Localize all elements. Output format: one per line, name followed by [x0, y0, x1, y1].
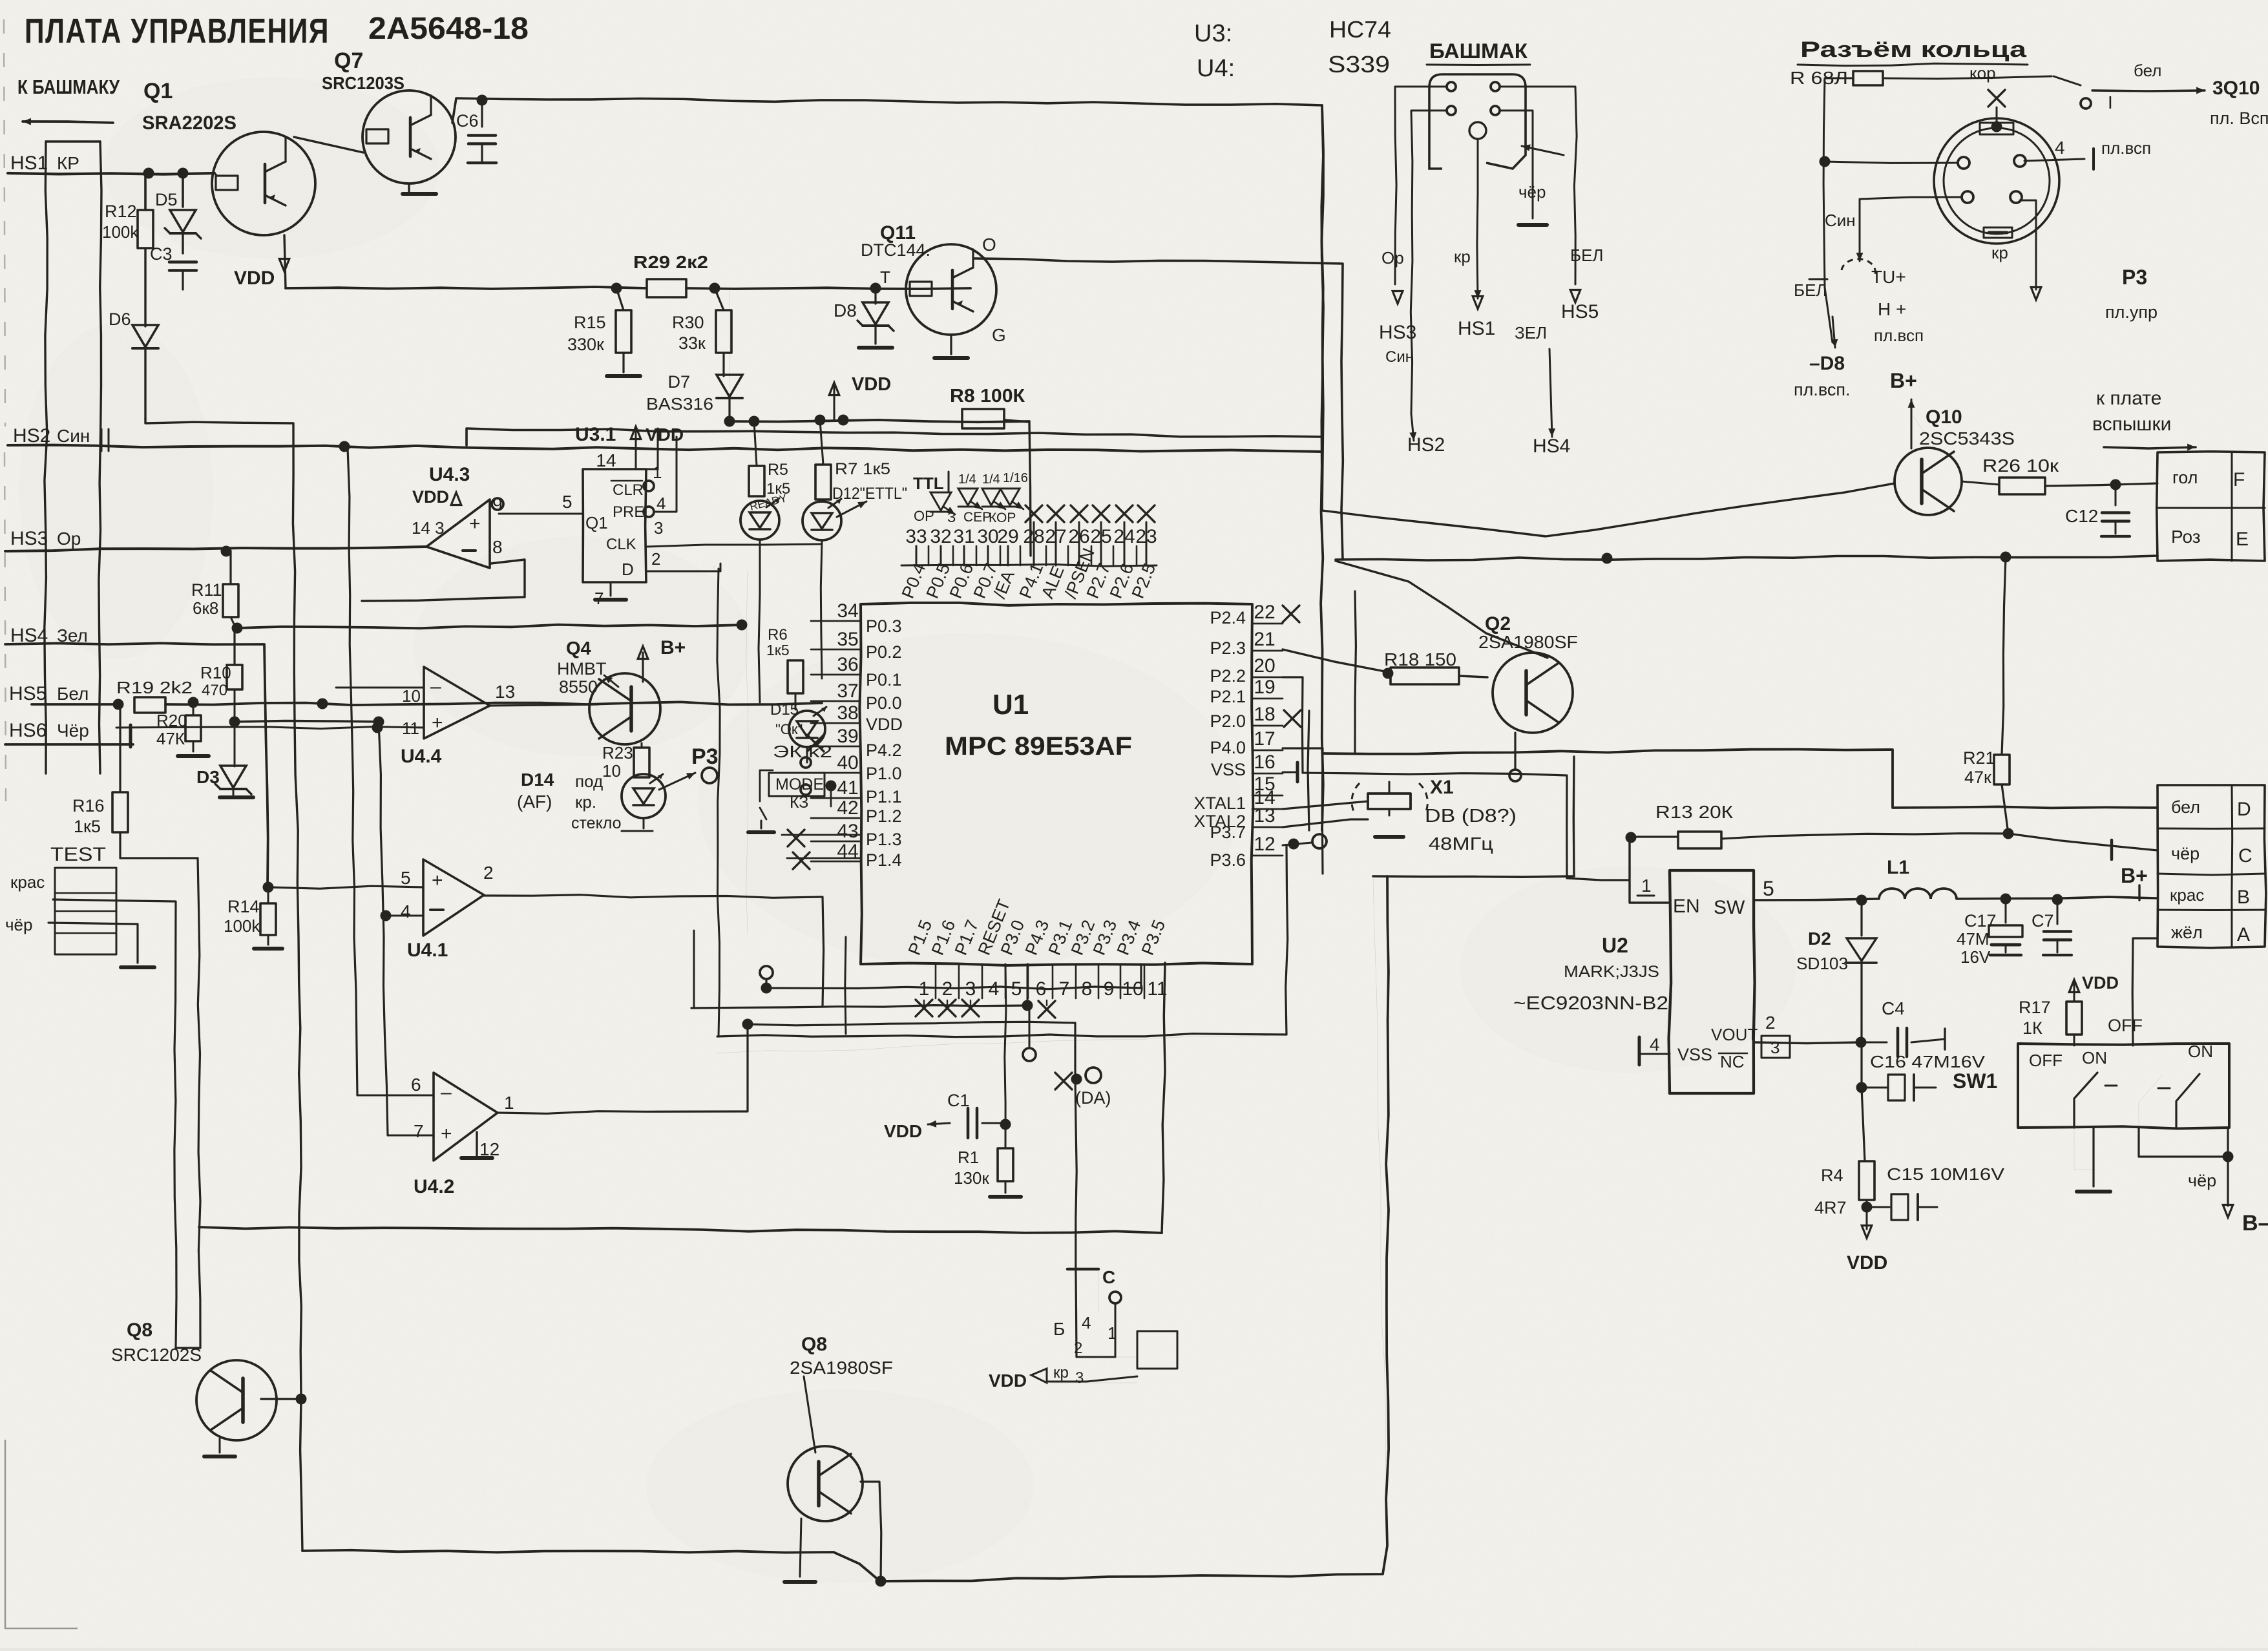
svg-text:29: 29 [997, 526, 1018, 547]
svg-text:Q1: Q1 [585, 513, 608, 532]
wire HS2 [8, 429, 1322, 452]
led TTL 3 [982, 472, 1005, 509]
capacitor C15 10u16V [1862, 1164, 2005, 1220]
svg-text:U2: U2 [1602, 934, 1628, 957]
svg-text:18: 18 [1254, 704, 1275, 725]
wire pin12 pad [1283, 834, 1327, 1035]
svg-text:R21: R21 [1963, 748, 1995, 768]
wire U4.1 minus [381, 910, 424, 921]
svg-text:P3.6: P3.6 [1210, 850, 1246, 870]
svg-text:XTAL1: XTAL1 [1193, 794, 1246, 813]
svg-text:Q10: Q10 [1926, 406, 1962, 428]
svg-text:2SC5343S: 2SC5343S [1919, 428, 2015, 448]
svg-text:47к: 47к [1964, 768, 1991, 787]
wire D net vert [1573, 757, 1575, 876]
IC U2 pin3 box [1761, 1036, 1790, 1058]
transistor Q10 2SC5343S [1890, 369, 2015, 515]
svg-text:14: 14 [596, 450, 616, 470]
resistor R14 100k [224, 882, 282, 949]
resistor R12 100k [102, 202, 153, 248]
wire U4.1 out [484, 895, 824, 1005]
resistor R13 20k [1626, 802, 2158, 850]
resistor R7 1k5 [815, 420, 890, 500]
svg-text:VDD: VDD [646, 425, 684, 445]
wire R16 bus down [198, 858, 200, 1348]
IC U1 box [859, 603, 1253, 965]
svg-text:"Ок": "Ок" [775, 721, 803, 737]
svg-text:32: 32 [930, 526, 951, 547]
svg-text:VDD: VDD [234, 268, 275, 289]
svg-text:P2.2: P2.2 [1210, 666, 1246, 686]
svg-text:VOUT: VOUT [1711, 1025, 1758, 1044]
svg-text:35: 35 [837, 629, 858, 650]
label крас [10, 872, 45, 892]
svg-text:жёл: жёл [2171, 923, 2203, 942]
svg-text:пл.упр: пл.упр [2105, 302, 2158, 322]
svg-text:C16 47М16V: C16 47М16V [1870, 1052, 1986, 1071]
svg-text:7: 7 [414, 1121, 424, 1141]
svg-text:~EC9203NN-B2: ~EC9203NN-B2 [1513, 993, 1668, 1014]
svg-text:БЕЛ: БЕЛ [1794, 280, 1827, 300]
resistor R17 1k [2019, 973, 2143, 1046]
transistor Q8b 2SA1980SF [784, 1334, 893, 1587]
wire vert 1157 [746, 571, 748, 934]
svg-text:кр.: кр. [575, 792, 596, 812]
label HS3 ор [10, 528, 81, 549]
svg-text:2: 2 [651, 549, 660, 569]
svg-text:R17: R17 [2019, 998, 2051, 1017]
svg-text:C6: C6 [456, 111, 479, 131]
transistor Q8 SRC1202S [111, 1320, 307, 1456]
crystal X1 48MHz [1352, 777, 1517, 854]
svg-text:1: 1 [504, 1093, 514, 1113]
wire arc to Q2 collector [1336, 561, 1548, 658]
svg-text:R4: R4 [1821, 1166, 1843, 1185]
svg-text:U3.1: U3.1 [575, 424, 616, 445]
svg-text:Q1: Q1 [143, 79, 173, 103]
wire vert 1112 [717, 569, 720, 1036]
label B+ conn [2121, 864, 2148, 900]
svg-text:MARK;J3JS: MARK;J3JS [1564, 963, 1659, 981]
label син [1825, 211, 1863, 261]
wire U4.2 out [498, 1019, 753, 1114]
svg-text:B+: B+ [660, 637, 686, 658]
IC U1 top pin numbers [905, 526, 1157, 565]
wire Q1 to Q7 [294, 137, 363, 152]
label БАШМАК [1427, 39, 1530, 65]
svg-text:R10: R10 [200, 663, 231, 682]
wire pin13 to crystal [1283, 819, 1368, 827]
svg-text:10: 10 [602, 761, 621, 781]
wire vert 1309 [845, 937, 846, 1034]
scan corner mark [5, 1440, 78, 1628]
svg-text:S339: S339 [1328, 51, 1390, 78]
svg-text:8: 8 [492, 537, 503, 557]
svg-text:Р3: Р3 [691, 744, 719, 769]
wire pin16 vss tick [1283, 762, 1297, 782]
svg-text:D: D [622, 560, 634, 579]
svg-text:100k: 100k [224, 916, 260, 936]
svg-text:SW: SW [1714, 897, 1745, 918]
svg-text:+: + [432, 712, 443, 733]
svg-text:C1: C1 [947, 1091, 970, 1110]
svg-text:1: 1 [919, 978, 930, 1000]
svg-text:R23: R23 [602, 743, 633, 762]
wire DA col [1075, 1023, 1076, 1357]
svg-text:R7 1к5: R7 1к5 [835, 460, 890, 478]
svg-text:P0.3: P0.3 [866, 616, 902, 636]
svg-text:ON: ON [2082, 1048, 2107, 1067]
svg-text:гол: гол [2172, 468, 2198, 487]
svg-text:P0.1: P0.1 [866, 670, 902, 689]
svg-text:КОР: КОР [989, 510, 1016, 525]
svg-text:P1.2: P1.2 [866, 806, 902, 826]
svg-text:T: T [880, 268, 890, 287]
IC U1 name [945, 689, 1132, 761]
svg-text:33: 33 [905, 526, 927, 547]
wire Q7 net corner [1308, 105, 1356, 830]
x marks left pins [782, 735, 859, 869]
svg-text:P1.1: P1.1 [866, 787, 902, 806]
svg-text:C15 10М16V: C15 10М16V [1887, 1164, 2005, 1184]
svg-text:вспышки: вспышки [2092, 414, 2171, 435]
switch contact [2053, 76, 2113, 112]
svg-text:TTL: TTL [913, 474, 944, 493]
svg-text:P2.1: P2.1 [1210, 687, 1246, 706]
svg-text:4: 4 [656, 494, 666, 513]
wire U4.4 plus [116, 722, 424, 733]
switch SW1 bottom wires [2074, 1128, 2234, 1192]
svg-text:P1.0: P1.0 [866, 764, 902, 783]
svg-text:HS3: HS3 [1379, 322, 1416, 343]
svg-text:ON: ON [2188, 1042, 2213, 1061]
opamp U4.3 [412, 464, 583, 568]
wire Q7 top [452, 95, 1322, 123]
svg-text:1к5: 1к5 [74, 817, 101, 836]
label TTL [913, 472, 949, 493]
svg-text:К БАШМАКУ: К БАШМАКУ [17, 76, 120, 98]
transistor Q1 SRA2202S [212, 132, 315, 235]
svg-text:D8: D8 [834, 300, 857, 321]
svg-text:Ор: Ор [57, 529, 81, 549]
svg-text:HS2: HS2 [13, 425, 50, 447]
svg-text:R5: R5 [768, 461, 788, 479]
resistor R21 47k [1963, 557, 2014, 839]
wire EN net [1283, 677, 1567, 878]
label Q7 [322, 48, 404, 93]
svg-text:Q8: Q8 [127, 1320, 152, 1341]
resistor R23 10 [602, 743, 649, 781]
resistor R30 33k [672, 288, 731, 376]
svg-text:U4.4: U4.4 [401, 746, 442, 767]
svg-text:30: 30 [977, 526, 998, 547]
svg-text:КЗ: КЗ [790, 794, 808, 812]
svg-text:–D8: –D8 [1809, 353, 1845, 374]
svg-text:Роз: Роз [2171, 527, 2201, 547]
svg-text:BAS316: BAS316 [646, 394, 713, 414]
label HS5 бел [9, 683, 89, 704]
svg-text:42: 42 [837, 797, 858, 819]
svg-text:CLR: CLR [613, 481, 644, 499]
svg-text:R11: R11 [191, 580, 222, 600]
wire Q11 collector [974, 258, 1343, 560]
svg-text:бел: бел [2171, 797, 2200, 817]
arrow to башмак [23, 118, 113, 125]
label TU+ [1871, 267, 1924, 345]
opamp U4.4 [401, 667, 515, 767]
svg-text:4: 4 [989, 978, 1000, 1000]
resistor R11 6k8 [191, 551, 238, 628]
led TTL 2 [958, 472, 982, 509]
svg-text:EN: EN [1673, 896, 1700, 917]
svg-text:кр: кр [1454, 247, 1471, 266]
svg-text:P2.4: P2.4 [1210, 608, 1246, 627]
label -D8 [1794, 353, 1851, 399]
svg-text:кор: кор [1969, 63, 1996, 83]
IC U2 pin2 [1754, 1013, 1867, 1048]
svg-text:+: + [432, 870, 443, 891]
IC U1 left pin numbers and labels [837, 600, 903, 870]
svg-text:3: 3 [965, 978, 976, 1000]
diode D5 zener [155, 190, 201, 253]
wire Q7 net corner [1321, 105, 1323, 510]
svg-text:1к5: 1к5 [766, 642, 790, 658]
label HS6 чёр [9, 720, 89, 741]
svg-text:HS4: HS4 [1533, 436, 1570, 457]
svg-text:ЗЕЛ: ЗЕЛ [1515, 323, 1547, 342]
IC U2 box [1669, 870, 1755, 1093]
led D15 Ok [770, 701, 826, 762]
svg-text:P4.2: P4.2 [866, 741, 902, 760]
svg-text:Q4: Q4 [566, 638, 591, 659]
resistor R20 47k [156, 702, 209, 756]
svg-text:OFF: OFF [2029, 1051, 2063, 1070]
resistor R5 1k5 [749, 421, 790, 498]
svg-text:R1: R1 [958, 1148, 979, 1167]
label Q11 [861, 222, 930, 287]
svg-text:SD103: SD103 [1796, 954, 1848, 973]
svg-text:C: C [2238, 845, 2252, 867]
svg-text:L1: L1 [1887, 857, 1909, 878]
svg-text:крас: крас [10, 872, 45, 892]
inductor L1 [1879, 857, 2158, 905]
wire pin14 to crystal [1283, 801, 1368, 809]
svg-text:16: 16 [1254, 752, 1275, 773]
svg-text:R6: R6 [768, 626, 788, 644]
diode D2 SD103 [1796, 895, 1876, 1043]
HS connector column box [45, 142, 101, 773]
svg-text:36: 36 [837, 654, 858, 675]
label Разъём кольца [1798, 37, 2028, 66]
flip-flop pin7 gnd [594, 582, 626, 608]
svg-text:TEST: TEST [50, 844, 106, 865]
resistor R15 330k [567, 288, 640, 376]
svg-text:6: 6 [411, 1075, 421, 1095]
capacitor C1 [884, 1091, 1011, 1141]
resistor R19 2k2 [116, 678, 193, 713]
svg-text:NC: NC [1720, 1052, 1745, 1071]
svg-text:HS5: HS5 [1561, 301, 1599, 322]
svg-text:U3:: U3: [1194, 20, 1232, 47]
wire shoe centre [1475, 140, 1482, 299]
svg-text:B–: B– [2242, 1211, 2268, 1236]
svg-text:4: 4 [401, 901, 411, 921]
svg-text:100k: 100k [102, 222, 139, 242]
transistor Q4 HMBT8550 [557, 638, 660, 744]
svg-text:D6: D6 [109, 310, 131, 329]
title text [25, 12, 529, 50]
svg-text:D7: D7 [667, 372, 690, 392]
ring top x [1988, 90, 2005, 124]
label чёр B- [2188, 1157, 2268, 1236]
svg-text:12: 12 [1254, 834, 1275, 855]
capacitor C7 [2032, 899, 2072, 955]
wire HS3 [5, 546, 426, 557]
labels ОР З СЕР КОР [914, 508, 1016, 525]
svg-text:4: 4 [2055, 138, 2065, 158]
svg-text:HS3: HS3 [10, 528, 48, 549]
label ЗЕЛ HS4 [1515, 323, 1570, 457]
wire HS1 [8, 168, 215, 179]
svg-text:C12: C12 [2065, 506, 2098, 526]
svg-text:47К: 47К [156, 729, 185, 748]
svg-text:13: 13 [495, 682, 515, 702]
wire power box edge [1373, 876, 1574, 1546]
wire C row tick [2110, 840, 2114, 859]
svg-text:37: 37 [837, 680, 858, 702]
svg-text:10: 10 [402, 686, 421, 706]
wire test kras [53, 899, 176, 1348]
IC U2 pin1 [1630, 837, 1670, 903]
wire R18 to Q2 [1459, 676, 1487, 677]
IC U2 pin4 [1639, 1035, 1670, 1065]
svg-text:D5: D5 [155, 190, 178, 209]
resistor R68 [1790, 68, 2052, 88]
svg-text:8: 8 [1082, 978, 1093, 1000]
svg-text:чёр: чёр [5, 915, 32, 934]
wire bottom long [302, 876, 1389, 1581]
svg-text:P1.3: P1.3 [866, 830, 902, 849]
wire shoe left pads [1395, 87, 1446, 414]
wire ring pin2 right [1991, 200, 2041, 300]
IC U1 top pin labels [898, 545, 1160, 601]
label VDD kp [989, 1340, 1137, 1391]
svg-text:БЕЛ: БЕЛ [1570, 246, 1603, 265]
svg-text:R19 2k2: R19 2k2 [116, 678, 193, 697]
pad DA [1055, 1067, 1111, 1108]
transistor Q7 SRC1203S [362, 90, 456, 184]
svg-text:ОР: ОР [914, 508, 934, 524]
label бел 3Q10 [2092, 61, 2268, 128]
svg-text:крас: крас [2170, 885, 2204, 905]
resistor R16 1k5 [72, 704, 198, 858]
diode D7 BAS316 [646, 372, 742, 421]
svg-text:Разъём кольца: Разъём кольца [1800, 37, 2027, 62]
label чёр shoe [1518, 182, 1547, 225]
wire bus C [379, 722, 388, 1135]
svg-text:P3.7: P3.7 [1210, 823, 1246, 842]
svg-text:D: D [2237, 799, 2251, 820]
svg-text:стекло: стекло [571, 814, 622, 832]
svg-text:кр: кр [1991, 243, 2008, 262]
svg-text:2: 2 [483, 863, 494, 883]
svg-text:HS6: HS6 [9, 720, 47, 741]
wire Q7 gnd [403, 184, 436, 194]
wire HS4 upper [232, 620, 748, 634]
svg-text:41: 41 [837, 777, 858, 799]
wire U4.4 minus [336, 687, 424, 689]
svg-text:–: – [430, 676, 441, 697]
svg-text:SRA2202S: SRA2202S [142, 112, 236, 134]
svg-text:C17: C17 [1964, 911, 1997, 931]
wire Q11 gnd [934, 335, 968, 358]
wire A net down [2132, 938, 2158, 1046]
svg-text:R12: R12 [105, 202, 137, 221]
wire bus 1554 [691, 1000, 1033, 1011]
label к плате вспышки [2092, 388, 2196, 450]
led D ready [740, 492, 788, 702]
svg-text:HMBT: HMBT [557, 659, 607, 678]
mode switch [748, 757, 837, 832]
hot shoe outline [1429, 74, 1526, 169]
label бел left [1794, 259, 1875, 348]
svg-text:TU+: TU+ [1871, 267, 1906, 287]
svg-text:31: 31 [953, 526, 974, 547]
label ЭК k2 [773, 742, 832, 761]
wire test chyor [48, 923, 154, 967]
svg-text:Син: Син [1385, 348, 1414, 366]
svg-text:330к: 330к [567, 335, 604, 354]
svg-text:U4:: U4: [1197, 55, 1235, 82]
svg-text:Б: Б [1053, 1319, 1065, 1339]
IC U2 labels [1673, 896, 1758, 1071]
svg-text:R20: R20 [156, 711, 187, 730]
label БЕЛ HS5 [1561, 246, 1603, 322]
wire ring pin4 [2024, 138, 2151, 169]
label кор [1969, 63, 1996, 83]
svg-text:U4.2: U4.2 [414, 1176, 454, 1197]
svg-text:VDD: VDD [2082, 973, 2119, 993]
svg-text:F: F [2233, 469, 2245, 490]
svg-text:P0.2: P0.2 [866, 642, 902, 662]
svg-text:к плате: к плате [2096, 388, 2161, 409]
resistor R10 470 [200, 628, 242, 722]
label HS4 зел [10, 625, 88, 646]
svg-text:C7: C7 [2032, 911, 2054, 931]
switch SW1 box [2018, 1042, 2229, 1129]
svg-text:5: 5 [1763, 877, 1774, 900]
svg-text:+: + [441, 1123, 452, 1144]
svg-text:КР: КР [57, 153, 79, 173]
wire HS6 [5, 725, 133, 747]
wire VDD node row [724, 415, 1030, 427]
svg-text:VDD: VDD [412, 487, 449, 507]
wire bus 1583 [748, 1022, 1075, 1025]
wire reset col [1023, 964, 1036, 1061]
diode D8 zener [834, 288, 894, 348]
svg-text:3Q10: 3Q10 [2212, 78, 2260, 99]
scan left edge [4, 19, 6, 801]
led TTL 4 [1000, 471, 1028, 509]
svg-text:VDD: VDD [866, 715, 903, 734]
svg-text:2А5648-18: 2А5648-18 [368, 12, 529, 46]
label U3.1 [575, 424, 616, 445]
svg-text:Чёр: Чёр [57, 720, 89, 741]
svg-text:VDD: VDD [852, 374, 891, 395]
svg-text:P4.0: P4.0 [1210, 738, 1246, 757]
wire bus D7 col [729, 288, 731, 388]
wire node row [229, 717, 384, 728]
